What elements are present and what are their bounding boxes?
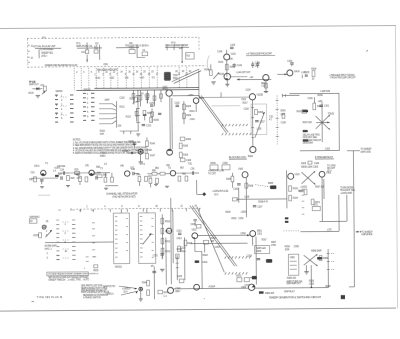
capacitor C21 — [81, 42, 89, 54]
svg-text:PARTS MARKED WITH BLUE: PARTS MARKED WITH BLUE — [81, 291, 110, 294]
amp row wire segment a — [31, 177, 58, 179]
cluster5 capacitor C46 — [131, 169, 139, 175]
svg-text:R390: R390 — [325, 286, 331, 288]
svg-text:R303: R303 — [34, 235, 40, 237]
switch label text — [55, 89, 91, 93]
wire light secondary row — [212, 105, 240, 107]
text near miller tube — [181, 248, 187, 254]
capacitor C147 second — [256, 62, 259, 69]
holdoff text below — [287, 278, 297, 280]
svg-text:54R: 54R — [281, 114, 285, 116]
svg-text:L144 CRT CKT: L144 CRT CKT — [236, 72, 251, 74]
svg-text:R189: R189 — [225, 212, 231, 214]
plug-in unit block 3 label text — [125, 44, 143, 47]
sparse dash marks left mid — [58, 209, 93, 212]
band left edge contact marks — [28, 45, 30, 62]
svg-text:SWEEP AND BLANKING PLUG-IN: SWEEP AND BLANKING PLUG-IN — [45, 64, 78, 67]
node junction dot block2 — [86, 59, 87, 60]
footer dash — [32, 301, 34, 303]
voltage box callout — [47, 272, 99, 276]
svg-text:R380 10K: R380 10K — [287, 278, 297, 280]
amp row ground mid2 — [165, 186, 169, 187]
svg-text:R152: R152 — [129, 98, 135, 100]
resistor R169 — [179, 152, 188, 158]
text +GATE B PULSE — [212, 190, 229, 197]
svg-text:SWP AMP CKT: SWP AMP CKT — [286, 282, 301, 285]
tube V152 input cf — [162, 87, 172, 97]
svg-text:SWEEP SEL: SWEEP SEL — [41, 53, 54, 55]
wire vertical 310 — [310, 265, 312, 287]
note trigger input text — [329, 74, 356, 80]
svg-text:R162: R162 — [297, 111, 303, 113]
wire stub v161 — [195, 104, 197, 112]
plug-in band extra text b2 — [76, 43, 99, 45]
svg-text:R322: R322 — [203, 255, 209, 257]
cluster4 network — [103, 173, 118, 186]
sheet right edge line — [395, 25, 397, 308]
svg-text:SWP/MAG: SWP/MAG — [29, 216, 40, 219]
svg-text:+225V: +225V — [240, 212, 247, 214]
inductor L165 — [301, 72, 306, 78]
wire miller to sawtooth tube — [198, 233, 250, 236]
misc text near timing caps — [177, 238, 183, 251]
lockout ground — [304, 265, 309, 274]
resistor R317 — [178, 246, 181, 252]
see parts list block — [81, 284, 110, 294]
capacitor C321 left — [153, 254, 164, 260]
capacitor C157 inside box — [255, 120, 265, 123]
svg-text:R365: R365 — [256, 251, 262, 253]
box part x181 lower — [180, 158, 191, 162]
svg-text:+GATE: +GATE — [300, 186, 307, 189]
svg-text:C162: C162 — [174, 103, 180, 105]
svg-text:R353: R353 — [211, 238, 217, 240]
interface bus wire upper — [94, 87, 198, 90]
svg-text:10K: 10K — [229, 59, 233, 61]
bus drop dashed 14 — [186, 67, 188, 87]
svg-text:SWP OUT: SWP OUT — [29, 84, 40, 86]
tube V135 pickoff top — [217, 51, 236, 60]
svg-text:A SWP: A SWP — [208, 285, 215, 288]
resistor drop RD4 below bus — [153, 90, 156, 106]
svg-text:C320: C320 — [181, 248, 187, 250]
caption CHANNEL ATTENUATOR — [106, 192, 137, 198]
timing resistor stack R311 — [161, 228, 171, 234]
svg-text:R188 4.7K: R188 4.7K — [258, 201, 268, 203]
caption BLOCKING OSC — [229, 156, 247, 159]
svg-text:6.8K: 6.8K — [100, 134, 105, 136]
amp row transistor Q45 — [120, 166, 130, 177]
svg-text:R358: R358 — [285, 246, 291, 248]
capacitor C140 above V135 — [227, 45, 236, 54]
bus drop dashed 6 — [110, 68, 112, 88]
sawtooth SWP box — [255, 245, 270, 253]
resistor drop RD1 below bus — [132, 90, 135, 103]
svg-text:C150: C150 — [119, 98, 125, 100]
resistor R303 — [33, 233, 41, 238]
switch columns dark overlay 3 — [83, 93, 95, 120]
dark marks column 284 — [285, 217, 289, 223]
wire vertical right boundary — [338, 93, 340, 150]
capacitor C183 — [233, 184, 241, 191]
svg-text:GND: GND — [95, 78, 100, 80]
text C325 bottom — [177, 276, 183, 278]
svg-text:TO SWEEP: TO SWEEP — [360, 149, 372, 151]
tube V303 miller — [191, 230, 197, 239]
wire to sweep right — [347, 149, 372, 154]
svg-text:R365A 100K: R365A 100K — [301, 166, 313, 169]
bus drop dashed 7 — [117, 68, 119, 88]
plug-in block 1 wire — [38, 49, 40, 58]
amp row transistor Q55 — [166, 165, 176, 176]
svg-text:C169: C169 — [314, 163, 320, 165]
amp row dark cap mark — [55, 175, 59, 177]
resistor R162 dark — [297, 110, 307, 114]
wafer box2 right ticks — [151, 218, 153, 257]
note TP marks above dashed boundary — [42, 36, 120, 40]
parts under switch columns — [86, 257, 97, 264]
resistor R141 — [225, 64, 235, 70]
resistor R156 inside box — [255, 110, 264, 115]
wire vertical 204 — [204, 244, 206, 253]
svg-text:C321: C321 — [153, 255, 159, 257]
plug-in interface dashed boundary (bottom) — [27, 66, 206, 67]
amp row text sprinkles — [57, 165, 185, 170]
resistor R166 — [311, 69, 317, 81]
wire vertical at 199.5 — [198, 71, 200, 98]
ground net138 — [136, 134, 140, 136]
resistor R22 — [94, 48, 99, 53]
faint note mid left — [38, 194, 50, 196]
svg-text:R157: R157 — [242, 103, 248, 105]
switch SW301 front contacts — [56, 220, 59, 260]
TP cluster extra text — [28, 85, 44, 95]
tunnel diode D145 — [122, 151, 136, 155]
delay network taps row 1 — [222, 124, 248, 126]
svg-text:+GATE B PULSE: +GATE B PULSE — [212, 190, 229, 193]
wire block2 v2 — [99, 45, 101, 60]
cluster8 caps — [190, 169, 199, 175]
svg-text:R389 SWP: R389 SWP — [311, 251, 322, 253]
svg-text:R146: R146 — [150, 143, 156, 145]
tube V161B — [193, 98, 204, 104]
switch wafer SW131 front column — [83, 93, 86, 120]
diagonal wire pair delay drive — [199, 95, 228, 133]
svg-text:C150: C150 — [245, 90, 251, 92]
svg-text:R163: R163 — [186, 106, 192, 108]
contact ticks column right — [302, 189, 305, 214]
svg-text:SW150: SW150 — [55, 91, 63, 93]
arrow to sweep amplifier — [356, 231, 373, 236]
wire block2 vertical — [86, 55, 88, 63]
bottom connector box 2 — [222, 163, 230, 170]
svg-text:C390: C390 — [309, 283, 315, 285]
switch row labels mid — [64, 224, 67, 253]
shield bracket arc — [207, 55, 210, 71]
svg-text:C165: C165 — [304, 72, 310, 74]
resistor R146 — [146, 137, 156, 146]
note block tunnel diode — [340, 187, 355, 195]
resistor drop RD5 below bus — [159, 90, 162, 102]
timing resistor stack R313 — [161, 248, 171, 254]
svg-text:R310: R310 — [165, 221, 171, 223]
svg-text:(THE NETWORK B NET): (THE NETWORK B NET) — [112, 196, 136, 198]
text R352 C352 — [231, 218, 244, 220]
lockout right vertical ticks — [327, 253, 335, 269]
svg-text:AMPLIFIER: AMPLIFIER — [361, 233, 372, 236]
svg-text:2R: 2R — [151, 266, 154, 268]
svg-text:C180: C180 — [222, 163, 228, 165]
delay line text labels right — [281, 110, 287, 124]
wire into V161 — [277, 73, 287, 75]
wire hook at bottom of 353 — [349, 286, 355, 288]
capacitor C315 — [176, 231, 182, 235]
svg-text:TRIGGER SEL A-1: TRIGGER SEL A-1 — [125, 44, 143, 47]
wire blocking grid row — [199, 92, 249, 101]
svg-text:C140: C140 — [217, 51, 223, 53]
bus pin labels row upper — [76, 71, 192, 74]
svg-text:C151: C151 — [146, 125, 152, 127]
text R322 — [203, 255, 209, 257]
resistor R372 — [311, 199, 320, 205]
bus drop dashed 9 — [133, 68, 135, 88]
sweep B row labels — [45, 246, 57, 251]
capacitor C160 mid — [158, 113, 161, 114]
svg-text:R144: R144 — [204, 69, 210, 71]
switch SW301 contact dashes — [62, 222, 68, 258]
svg-text:+4 TRIGGER PICKOFF: +4 TRIGGER PICKOFF — [246, 51, 272, 55]
svg-text:R390: R390 — [309, 281, 315, 283]
svg-text:R141: R141 — [230, 67, 236, 69]
transistor arrow pickoff — [213, 72, 219, 79]
resistor R186 — [232, 187, 268, 203]
interface bus wire lower — [76, 89, 198, 92]
lockout cross symbol — [304, 254, 318, 267]
resistor R161 — [313, 97, 323, 110]
svg-text:TD165: TD165 — [328, 113, 335, 115]
stray mark top right — [366, 50, 368, 51]
delay network box — [251, 104, 267, 135]
diagonal wire pair to pickoff — [172, 69, 202, 83]
svg-text:+4V: +4V — [249, 77, 253, 79]
delay box right labels — [269, 116, 274, 121]
svg-text:4.7K: 4.7K — [77, 178, 82, 180]
capacitor C165 — [304, 72, 310, 76]
svg-text:R150: R150 — [100, 131, 106, 133]
resistor R188 — [245, 183, 254, 188]
wire vertical 176 ticks — [176, 255, 179, 280]
unblank right note column — [327, 165, 336, 172]
amp row cluster1 transistor Q20 — [34, 165, 46, 176]
svg-text:100K: 100K — [285, 249, 290, 251]
svg-text:ACTUAL PLUG-IN UNIT: ACTUAL PLUG-IN UNIT — [33, 45, 56, 48]
switch wafer SW130 front column — [55, 95, 58, 122]
cluster1 resistor R20 — [29, 177, 36, 182]
svg-text:FROM TRIGGER CIRCUIT: FROM TRIGGER CIRCUIT — [330, 77, 356, 79]
plug-in band underline 4 — [165, 46, 189, 48]
sawtooth text label 1 — [103, 285, 116, 288]
sawtooth arrow 1 — [119, 286, 137, 290]
svg-text:C360: C360 — [240, 233, 246, 235]
svg-text:R161: R161 — [190, 111, 196, 113]
trig mult text sprinkles — [307, 95, 323, 100]
wire top right blocking — [282, 94, 299, 98]
svg-text:C358: C358 — [294, 246, 300, 248]
wafer contact number texts 2 — [87, 94, 89, 119]
svg-text:R180: R180 — [210, 163, 216, 165]
callout text lines below — [48, 276, 89, 282]
svg-text:R166: R166 — [186, 139, 192, 141]
V35 dark arc — [89, 173, 93, 176]
plug-in interface dashed boundary (right corner) — [198, 37, 200, 50]
svg-text:R194: R194 — [293, 198, 299, 200]
cluster1 capacitor C20 — [40, 180, 44, 185]
bottom connector boxes row — [210, 163, 218, 170]
wire vertical pair 170 — [170, 96, 172, 149]
svg-text:R167 22K: R167 22K — [303, 122, 313, 124]
svg-text:R367 1M: R367 1M — [315, 187, 324, 189]
bus drop dashed 3 — [88, 68, 90, 90]
svg-text:50 V: 50 V — [214, 194, 219, 196]
band caption SWEEP AND BLANKING — [45, 64, 78, 67]
dashed stub mid right — [283, 230, 300, 232]
resistor chain under V152A — [264, 81, 268, 93]
timing switch wafer box 2 — [138, 213, 155, 264]
svg-text:C169: C169 — [186, 160, 192, 162]
delay line pickoff blob T150 — [164, 72, 178, 81]
wire long mid horizontal — [196, 180, 198, 194]
cluster5 resistors — [137, 174, 148, 186]
svg-text:SWEEP TIME/CM . . 1 mSEC TRIG: SWEEP TIME/CM . . 1 mSEC TRIG . . AUTO — [48, 278, 89, 281]
lockout parts — [319, 256, 328, 261]
svg-text:R130: R130 — [28, 93, 34, 95]
notes text block — [73, 139, 152, 153]
svg-text:R168: R168 — [183, 146, 189, 148]
timing resistor stack R312 — [161, 238, 171, 244]
bus drop dashed 8 — [125, 68, 127, 88]
svg-text:C347: C347 — [175, 288, 181, 290]
sheet bottom edge line — [0, 308, 396, 311]
svg-text:R367: R367 — [262, 239, 268, 241]
sweep gate parts left — [226, 173, 234, 188]
bus drop dashed 5 — [103, 68, 105, 88]
wire horizontal 232 — [300, 229, 339, 231]
resistor R193 — [289, 186, 299, 192]
svg-text:C361: C361 — [257, 233, 263, 235]
cluster7 parts — [176, 173, 192, 181]
dashed tap bus right — [275, 95, 279, 144]
svg-text:R151: R151 — [120, 107, 126, 109]
sheet top edge line — [0, 25, 396, 28]
svg-text:R344: R344 — [142, 282, 148, 284]
plug-in block 1 note text — [41, 53, 54, 62]
svg-text:A TIMING SWITCH: A TIMING SWITCH — [83, 296, 101, 299]
svg-text:+GATE A: +GATE A — [122, 288, 131, 291]
timing switch wafer box 1 — [113, 213, 129, 264]
resistor R367 — [262, 239, 268, 241]
amplitude cal dark text — [286, 280, 303, 286]
svg-text:C365: C365 — [313, 167, 319, 169]
wire output row left — [174, 285, 249, 289]
unblank below text bits — [298, 186, 324, 193]
svg-text:50MA: 50MA — [100, 155, 106, 158]
resistor R159 mid — [151, 108, 154, 122]
node diamond 4 — [197, 192, 206, 196]
capacitor C149 — [232, 63, 242, 68]
wire block3 — [137, 44, 145, 57]
capacitor C187 — [253, 206, 263, 209]
resistor drop RD2 below bus — [139, 90, 142, 106]
wire miller cathode down — [194, 239, 196, 252]
wire block4 b — [173, 44, 175, 50]
shield box right rail — [184, 237, 186, 280]
node dot output row — [311, 286, 313, 288]
amp row filler parts x95-120 — [93, 174, 98, 180]
caption TRIGGER MULT underlined — [315, 156, 334, 159]
resistor R164 — [183, 113, 192, 119]
wire vertical pair mid — [171, 198, 174, 263]
svg-text:+GATE AMP: +GATE AMP — [340, 192, 352, 195]
sawtooth arrow 2 — [121, 291, 138, 295]
wire block4 c with node — [181, 44, 183, 63]
svg-text:C315: C315 — [176, 231, 182, 233]
plug-in band underline 1 — [35, 47, 61, 49]
svg-text:C306: C306 — [190, 224, 196, 226]
wire output row right — [255, 287, 328, 290]
TP cluster dark text overlay — [29, 82, 36, 84]
connector box J372 — [312, 205, 320, 211]
svg-text:C353: C353 — [215, 247, 221, 249]
resistor R194 — [289, 195, 299, 201]
amp row filler resistor R28 — [75, 174, 81, 185]
box inner part — [176, 254, 179, 258]
arrow TP cluster — [42, 91, 46, 94]
capacitor C343 — [152, 271, 156, 272]
resistor R345 — [147, 290, 150, 296]
dark capacitor C322 — [195, 260, 208, 264]
wafer contact number texts 1 — [61, 96, 63, 121]
fan-in wires left group — [99, 104, 116, 124]
resistor R152 — [129, 97, 137, 102]
ground pickoff left — [211, 82, 215, 84]
transistor Q310 — [166, 228, 171, 233]
svg-text:SINGLE SWEEP RESET: SINGLE SWEEP RESET — [165, 45, 189, 47]
resistor box C370 — [244, 278, 250, 288]
svg-text:C161: C161 — [324, 106, 330, 108]
capacitor C161 — [320, 105, 330, 108]
svg-text:DIAGRAM: DIAGRAM — [303, 142, 313, 145]
svg-text:C316: C316 — [177, 238, 183, 240]
potentiometer R302 arrow — [45, 230, 52, 237]
V20 dark arc and labels — [31, 172, 46, 176]
svg-text:VOLTAGE READINGS WERE OBTAINED: VOLTAGE READINGS WERE OBTAINED WITH CONT… — [48, 272, 99, 275]
wire trigger line with arrow — [237, 77, 272, 81]
parts mid 178 — [179, 279, 184, 283]
wire bus pair darker overlay — [76, 88, 199, 91]
cluster2 resistor R26 — [74, 169, 79, 174]
resistor R147 — [146, 149, 156, 159]
wire vertical 338 — [338, 195, 340, 231]
tube V161 follower — [287, 70, 301, 76]
svg-text:6AU6: 6AU6 — [294, 70, 300, 73]
sawtooth taps row 3 — [225, 256, 251, 258]
svg-text:GND A: GND A — [142, 44, 149, 47]
svg-text:C183: C183 — [233, 189, 239, 191]
bus drop dashed 2 — [80, 68, 82, 90]
wire vertical 353 upper — [352, 151, 354, 168]
svg-text:47K: 47K — [40, 85, 44, 87]
bus second label row sparse — [95, 78, 155, 80]
